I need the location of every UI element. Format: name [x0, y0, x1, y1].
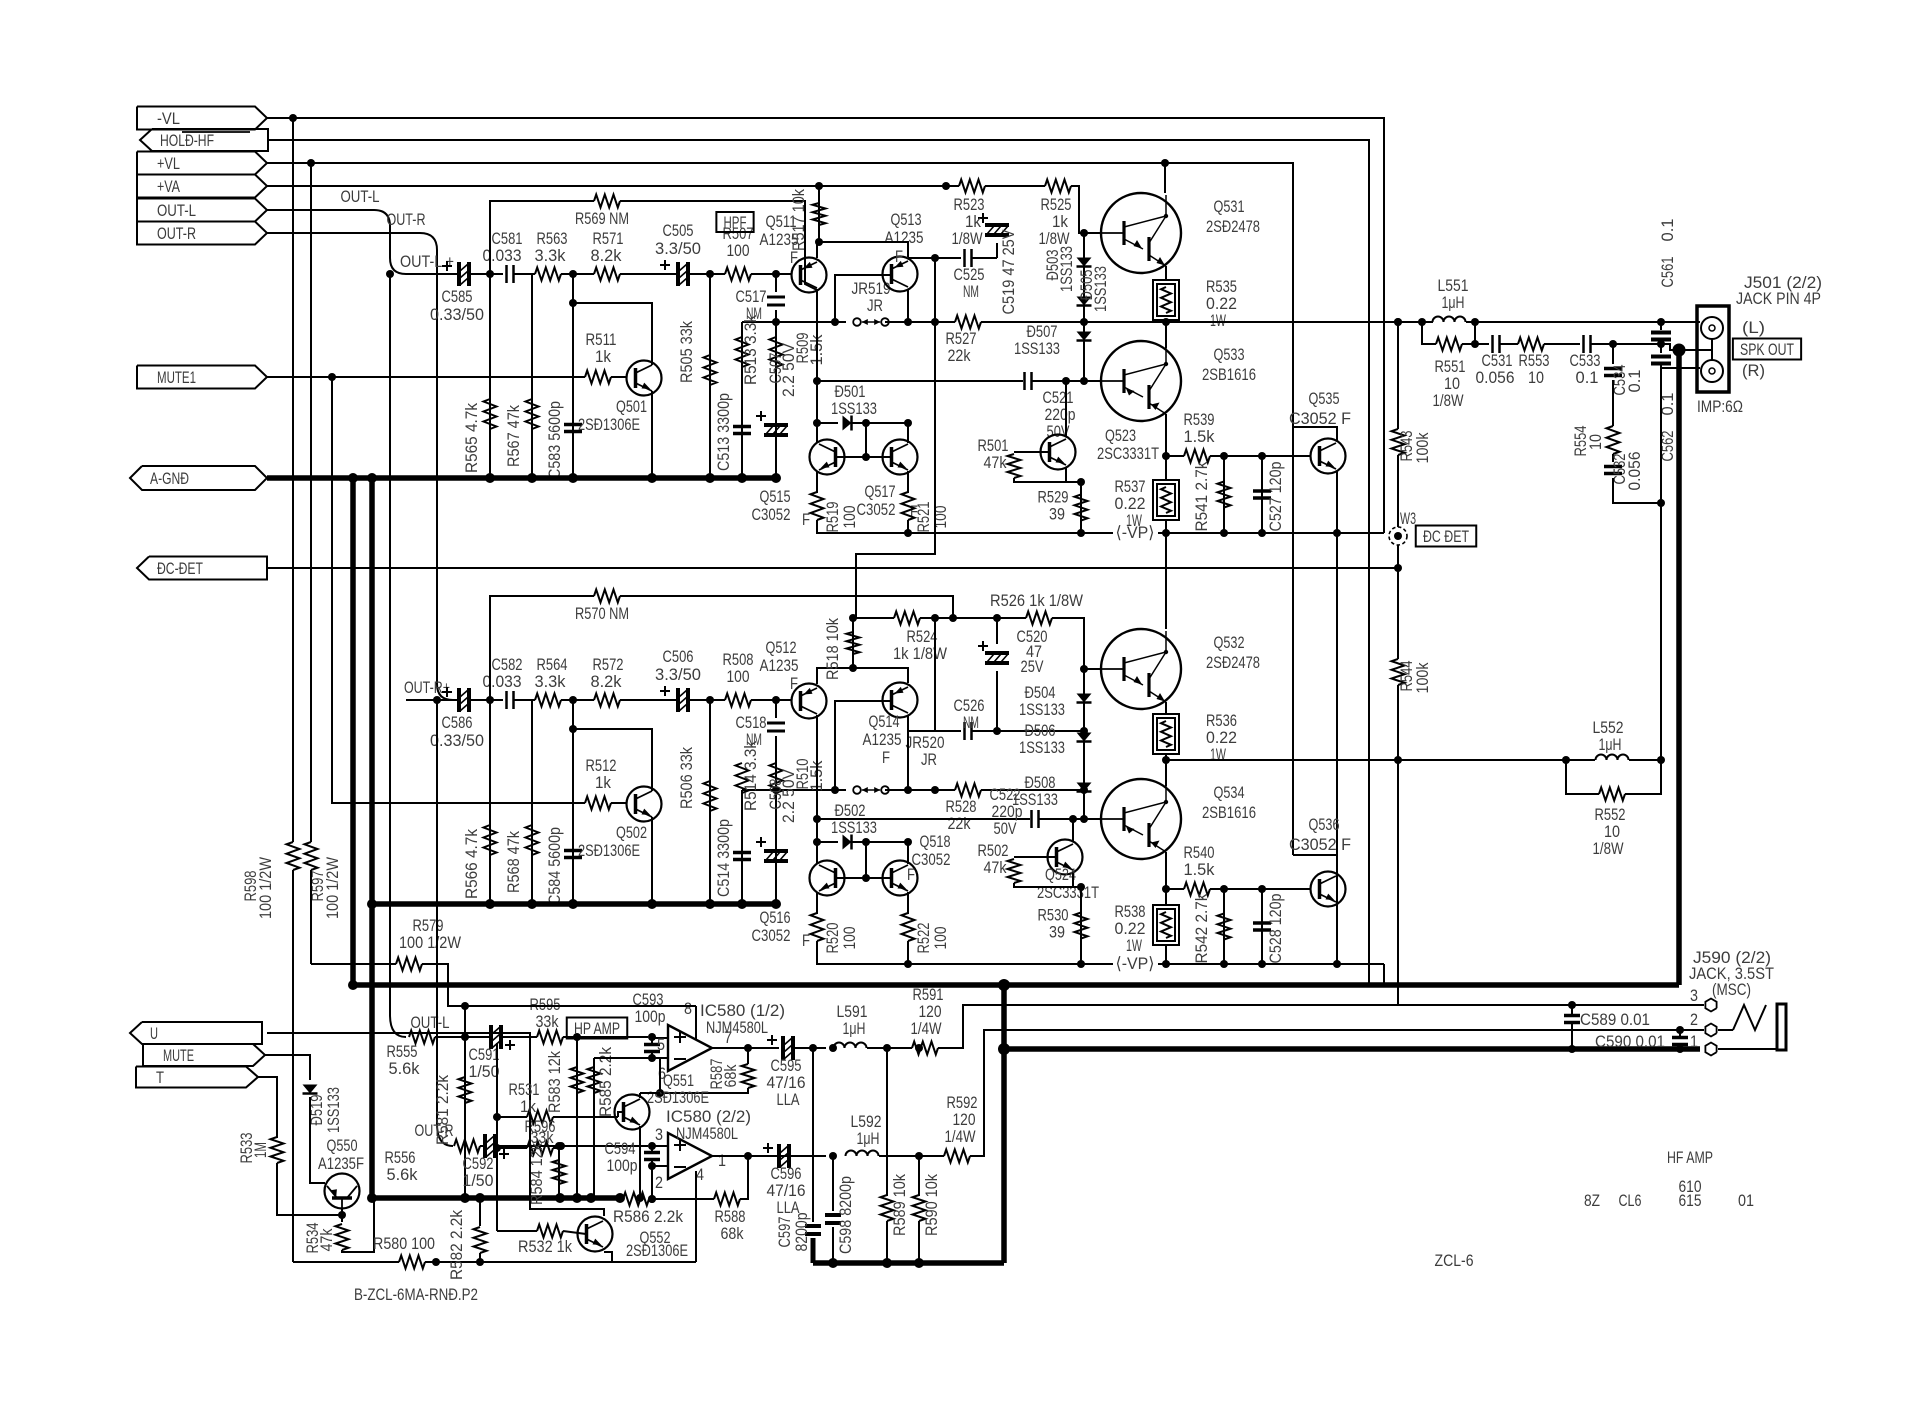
svg-text:8.2k: 8.2k: [591, 672, 622, 691]
svg-text:2SĐ2478: 2SĐ2478: [1206, 217, 1260, 236]
connector W3: [1389, 527, 1407, 545]
wire C534-R554: [1612, 380, 1614, 426]
wire R579 left: [311, 963, 396, 965]
svg-text:8: 8: [684, 999, 692, 1018]
capacitor C591 electrolytic: [491, 1025, 515, 1050]
wire W3 down: [1397, 545, 1399, 659]
junction dot OUT-L branch: [386, 270, 394, 278]
resistor R586: [623, 1193, 649, 1206]
label R582: [447, 1210, 466, 1280]
resistor R589: [881, 1195, 894, 1221]
wire R541 vertical: [1223, 456, 1225, 533]
wire R522 to -VP: [907, 941, 909, 964]
wire T line: [258, 1077, 277, 1138]
label R518: [823, 618, 842, 680]
svg-text:50V: 50V: [994, 819, 1018, 838]
svg-text:R583 12k: R583 12k: [545, 1051, 564, 1113]
label Q513: [885, 210, 924, 266]
resistor R572: [594, 694, 620, 707]
wire R590 vertical: [918, 1156, 920, 1196]
svg-text:OUT-L +: OUT-L +: [400, 252, 454, 271]
svg-text:JR: JR: [921, 750, 937, 769]
capacitor C586 electrolytic: [442, 687, 469, 712]
svg-text:100: 100: [931, 506, 950, 529]
label R532: [518, 1237, 572, 1256]
label R536: [1206, 711, 1237, 764]
wire R533 down: [277, 1163, 342, 1215]
junction dot R589 top: [883, 1044, 891, 1052]
wire Q524 emitter: [1073, 873, 1081, 887]
svg-text:5: 5: [657, 1035, 665, 1054]
box label SPK OUT: [1733, 339, 1801, 360]
junction dot vbe bottom: [1077, 883, 1085, 891]
wire A-GND vertical a: [350, 478, 356, 985]
resistor R511: [585, 371, 611, 384]
svg-text:2SĐ1306E: 2SĐ1306E: [578, 841, 640, 860]
label R541: [1192, 461, 1211, 531]
wire feedback R569: [490, 201, 594, 274]
diode Đ507: [1077, 332, 1092, 341]
wire R571-C505: [620, 273, 676, 275]
connector J590 sleeve: [1777, 1004, 1786, 1050]
svg-text:R565 4.7k: R565 4.7k: [462, 403, 481, 473]
wire R507-Q511: [751, 273, 792, 275]
label Q501: [578, 397, 647, 434]
junction dot minus in: [648, 1054, 656, 1062]
wire R526 to diode chain: [1052, 618, 1084, 669]
junction dots L551 nodes: [1471, 318, 1479, 348]
diode Đ504: [1077, 694, 1092, 703]
junction dots R524 line: [849, 614, 1001, 622]
wire R524 line mid: [920, 617, 1026, 619]
transistor Q533 darlington: [1101, 341, 1181, 421]
label R526: [990, 591, 1083, 610]
wire Q536 emitter: [1336, 904, 1338, 964]
junction dots A-GND mid: [485, 899, 781, 909]
svg-text:1k: 1k: [595, 347, 611, 366]
svg-text:HOLĐ-HF: HOLĐ-HF: [160, 131, 214, 150]
transistor Q518: [883, 861, 918, 896]
net flag DC-DET: [137, 557, 267, 580]
wire chain stub: [1612, 344, 1614, 364]
svg-text:100k: 100k: [1413, 432, 1432, 463]
diode Đ505: [1077, 297, 1092, 306]
label C531: [1476, 351, 1515, 387]
label Q514: [863, 712, 902, 767]
svg-text:Q524: Q524: [1045, 865, 1076, 884]
label R565: [462, 403, 481, 473]
wire J590 tip link: [1718, 1029, 1733, 1031]
label C583: [545, 401, 564, 479]
transistor Q523: [1041, 435, 1076, 470]
wire C592 out: [497, 1145, 537, 1147]
wire C532 down: [1613, 478, 1661, 503]
svg-text:68k: 68k: [721, 1224, 744, 1243]
wire jumper-R527: [885, 321, 955, 323]
svg-text:C514 3300p: C514 3300p: [714, 819, 733, 897]
svg-text:100: 100: [840, 927, 859, 950]
label C595: [767, 1056, 806, 1109]
label Q515: [752, 487, 811, 529]
wire Q501 emitter: [651, 391, 653, 478]
svg-text:R541 2.7k: R541 2.7k: [1192, 461, 1211, 531]
svg-text:Q517: Q517: [865, 482, 896, 501]
svg-text:U: U: [150, 1024, 158, 1043]
transistor Q531 darlington: [1101, 193, 1181, 273]
resistor R527: [955, 316, 981, 329]
label R586: [613, 1207, 683, 1226]
wire Q514 base drop: [835, 701, 891, 790]
svg-text:0.1: 0.1: [1658, 219, 1677, 242]
transistor Q501: [627, 361, 662, 396]
wire R584 vertical: [558, 1146, 560, 1198]
resistor R595: [537, 1031, 563, 1044]
svg-text:2SĐ1306E: 2SĐ1306E: [578, 415, 640, 434]
label R596: [525, 1117, 556, 1147]
svg-text:ĐC ĐET: ĐC ĐET: [1423, 527, 1469, 546]
svg-text:A1235: A1235: [863, 730, 902, 749]
wire Q550 em down: [341, 1215, 343, 1222]
label IMP 6ohm: [1697, 397, 1743, 416]
svg-text:47k: 47k: [317, 1228, 336, 1251]
svg-text:1W: 1W: [1126, 511, 1142, 530]
op-amp IC580 (2/2): [668, 1133, 712, 1179]
wire diode to bases: [865, 423, 867, 457]
wire R582 vertical: [479, 1198, 481, 1226]
wire jack internal: [1711, 339, 1713, 360]
svg-text:1/4W: 1/4W: [945, 1127, 976, 1146]
svg-text:OUT-R: OUT-R: [157, 224, 196, 243]
svg-text:R566 4.7k: R566 4.7k: [462, 829, 481, 899]
wire feedback R570: [490, 596, 594, 700]
resistor R524: [894, 612, 920, 625]
label C597: [775, 1213, 811, 1252]
svg-text:R570 NM: R570 NM: [575, 604, 629, 623]
svg-text:1μH: 1μH: [843, 1019, 866, 1038]
resistor R590: [913, 1195, 926, 1221]
wire R542 vertical: [1223, 889, 1225, 964]
resistor R542: [1218, 914, 1231, 940]
junction dots drive line: [1080, 815, 1088, 823]
label R588: [715, 1207, 746, 1243]
svg-text:1SS133: 1SS133: [324, 1087, 343, 1133]
capacitor C513: [733, 427, 751, 434]
svg-text:8.2k: 8.2k: [591, 246, 622, 265]
label C513: [714, 393, 733, 471]
wire R511-Q501: [611, 376, 627, 378]
wire -VP right: [1158, 963, 1384, 965]
wire R531 line: [497, 1116, 527, 1118]
wire Q552 emitter: [604, 1252, 612, 1262]
wire C593 link bot: [652, 1052, 668, 1058]
svg-text:R582 2.2k: R582 2.2k: [447, 1210, 466, 1280]
junction dot C561 top: [1657, 318, 1665, 326]
wire L552 out: [1629, 759, 1661, 761]
wire R568 vertical: [531, 700, 533, 904]
resistor R566: [484, 825, 497, 855]
wire R555 out: [435, 1036, 465, 1038]
svg-text:1μH: 1μH: [1442, 293, 1465, 312]
capacitor C527: [1253, 491, 1271, 498]
wire plus in: [652, 1037, 668, 1039]
label pin2: [655, 1173, 663, 1192]
svg-text:Q534: Q534: [1214, 783, 1245, 802]
capacitor C594: [644, 1153, 660, 1160]
transistor Q551: [615, 1095, 650, 1130]
wire diode chain: [1083, 233, 1085, 322]
label C508: [766, 768, 798, 823]
svg-text:Q523: Q523: [1105, 426, 1136, 445]
junction dots C589: [1568, 1001, 1576, 1053]
capacitor C584: [564, 851, 582, 858]
label R533: [237, 1133, 270, 1164]
wire Q533 collector down: [1165, 414, 1167, 480]
resistor R532: [537, 1225, 563, 1238]
wire C591 out: [503, 1036, 537, 1038]
label R522: [914, 923, 950, 954]
capacitor C598: [825, 1215, 841, 1223]
label R509: [793, 333, 826, 366]
label R571: [591, 229, 624, 265]
junction dot Q501 collector: [569, 299, 577, 307]
resistor R563: [535, 268, 561, 281]
wire C525 right: [972, 257, 997, 259]
label Đ502: [831, 801, 877, 837]
svg-text:C528 120p: C528 120p: [1266, 894, 1285, 964]
fusible resistor R537: [1153, 480, 1179, 520]
wire base join: [836, 877, 891, 879]
wire R589 down: [886, 1221, 888, 1263]
wire R502 bottom: [1014, 883, 1081, 887]
resistor R587: [742, 1064, 755, 1088]
net flag +VL: [137, 152, 267, 175]
svg-text:1SS133: 1SS133: [831, 818, 877, 837]
wire Q532 emitter: [1165, 702, 1167, 714]
wire R589 vertical: [886, 1048, 888, 1196]
label C586: [430, 713, 484, 750]
junction dot Q502 collector: [569, 725, 577, 733]
wire +VL rail: [267, 163, 1293, 855]
wire C522 to base: [1039, 818, 1101, 820]
svg-text:-VL: -VL: [157, 109, 180, 128]
diode Đ502: [843, 835, 852, 850]
diode Đ501: [843, 416, 852, 431]
wire diode chain: [1083, 669, 1085, 790]
transistor Q535: [1311, 439, 1346, 474]
resistor R519: [811, 492, 824, 520]
svg-text:1SS133: 1SS133: [1091, 266, 1110, 312]
wire +VA rail: [267, 185, 959, 187]
transistor Q536: [1311, 872, 1346, 907]
junction dots fb line: [648, 1195, 656, 1203]
capacitor C519 electrolytic: [978, 213, 1009, 235]
resistor R541: [1218, 482, 1231, 508]
capacitor C532: [1604, 467, 1622, 474]
resistor R528: [955, 784, 981, 797]
label C590: [1595, 1032, 1665, 1051]
svg-text:C584 5600p: C584 5600p: [545, 827, 564, 905]
wire C597 vertical: [812, 1048, 814, 1222]
label R510: [793, 759, 826, 792]
capacitor C528: [1253, 923, 1271, 930]
resistor R521: [902, 492, 915, 520]
capacitor C597: [805, 1226, 821, 1234]
wire spk R chain: [1475, 343, 1489, 345]
wire R566 vertical: [489, 700, 491, 904]
wire DC-DET line: [268, 567, 1398, 569]
svg-text:C527 120p: C527 120p: [1266, 462, 1285, 532]
svg-text:1/4W: 1/4W: [911, 1019, 942, 1038]
resistor R539: [1184, 450, 1210, 463]
svg-text:0.033: 0.033: [483, 246, 522, 265]
wire Q531 collector feed: [1164, 163, 1166, 193]
wire Q517 emitter: [907, 471, 909, 493]
transistor Q534 darlington: [1101, 779, 1181, 859]
svg-text:1: 1: [718, 1151, 726, 1170]
svg-text:(MSC): (MSC): [1712, 980, 1751, 999]
svg-text:2SC3331T: 2SC3331T: [1037, 883, 1099, 902]
diode Đ508: [1077, 783, 1092, 792]
wire R595 out: [563, 1036, 648, 1038]
wire MUTE2 line: [332, 377, 585, 803]
svg-text:1M: 1M: [251, 1142, 270, 1158]
label OUT-L hp: [411, 1013, 450, 1032]
wire L551 out: [1466, 321, 1475, 323]
junction dot out2: [744, 1152, 752, 1160]
svg-text:1.5k: 1.5k: [1184, 427, 1215, 446]
svg-text:JACK PIN 4P: JACK PIN 4P: [1736, 289, 1821, 308]
resistor R506: [704, 781, 717, 811]
label pin3: [655, 1125, 663, 1144]
wire R502 top: [1014, 856, 1056, 858]
label R512: [586, 756, 617, 792]
label jack L: [1742, 318, 1765, 337]
junction dots bus joins: [348, 899, 377, 1203]
label Q502: [578, 823, 647, 860]
label HF AMP title: [1667, 1148, 1713, 1167]
wire Q534 emitter up: [1165, 760, 1167, 786]
resistor R543: [1392, 429, 1405, 455]
svg-text:CL6: CL6: [1619, 1191, 1642, 1210]
wire C518 down: [775, 736, 777, 790]
resistor R507: [725, 268, 751, 281]
resistor R583: [571, 1067, 584, 1093]
svg-text:1/8W: 1/8W: [1039, 229, 1070, 248]
svg-text:C3052: C3052: [752, 926, 791, 945]
wire R586 right: [649, 1198, 714, 1200]
label Q517: [857, 482, 919, 521]
wire OUT-L hp bend: [390, 1015, 406, 1037]
op-amp IC580 (1/2): [668, 1025, 712, 1071]
capacitor C525: [965, 249, 972, 267]
capacitor C534: [1604, 369, 1622, 376]
resistor R510: [770, 763, 783, 793]
resistor R556: [454, 1140, 480, 1153]
transistor Q514: [883, 683, 918, 718]
wire R596 link: [496, 1117, 498, 1148]
connector J501 pin L: [1701, 317, 1723, 339]
label R584: [527, 1143, 546, 1205]
wire Q551 base link: [618, 1112, 623, 1117]
wire C520 stub: [996, 671, 998, 731]
svg-text:1SS133: 1SS133: [1019, 738, 1065, 757]
junction dot fb node: [656, 1089, 664, 1097]
resistor R568: [526, 825, 539, 855]
label R537: [1115, 477, 1146, 530]
svg-text:ZCL-6: ZCL-6: [1435, 1251, 1474, 1270]
svg-text:Q536: Q536: [1309, 815, 1340, 834]
capacitor C585 electrolytic: [442, 261, 469, 286]
junction dot output node: [1162, 318, 1170, 326]
wire Q502 collector: [573, 729, 652, 791]
svg-text:C590 0.01: C590 0.01: [1595, 1032, 1665, 1051]
junction dot L591 out: [915, 1044, 923, 1052]
label R514: [741, 741, 760, 811]
label Đ506: [1019, 721, 1065, 757]
wire C518 stub: [775, 700, 777, 718]
label J501: [1736, 273, 1822, 308]
net flag OUT-R: [137, 222, 267, 245]
wire Q523 emitter: [1066, 468, 1081, 482]
wire R514 vertical: [741, 790, 743, 904]
wire C589 vertical: [1571, 1005, 1573, 1014]
wire R535 to out: [1165, 320, 1167, 322]
label C528: [1266, 894, 1285, 964]
resistor R518: [847, 632, 860, 654]
label C527: [1266, 462, 1285, 532]
wire R564-R572: [561, 699, 594, 701]
wire R552 out: [1625, 760, 1661, 794]
svg-text:Q550: Q550: [327, 1136, 358, 1155]
resistor R588: [714, 1193, 740, 1206]
inductor L552: [1596, 755, 1629, 761]
label R517: [789, 189, 808, 251]
transistor Q532 darlington: [1101, 629, 1181, 709]
svg-text:C513 3300p: C513 3300p: [714, 393, 733, 471]
wire R563-R571: [561, 273, 594, 275]
label code 610: [1679, 1177, 1702, 1196]
label C526: [954, 696, 985, 732]
wire jumper line left: [742, 321, 846, 323]
wire R510 vertical: [775, 790, 777, 904]
transistor Q517: [883, 440, 918, 475]
wire R567 vertical: [531, 274, 533, 478]
wire U line: [267, 1033, 530, 1120]
junction dots Đ502: [862, 838, 912, 846]
wire Q518 collector: [907, 842, 909, 864]
svg-text:W3: W3: [1400, 509, 1416, 528]
svg-text:NM: NM: [963, 713, 979, 732]
resistor R555: [409, 1031, 435, 1044]
wire R534 out: [342, 1198, 374, 1252]
wire C593 link top: [651, 1037, 653, 1044]
label Q531: [1206, 197, 1260, 236]
wire Q502 emitter: [651, 817, 653, 904]
wire Q516 collector: [816, 842, 818, 864]
wire R501 top: [1014, 451, 1049, 453]
svg-text:A1235: A1235: [760, 656, 799, 675]
junction dot R598 top: [289, 114, 297, 122]
svg-text:2.2 50V: 2.2 50V: [779, 342, 798, 397]
svg-text:100: 100: [840, 506, 859, 529]
resistor R530: [1075, 913, 1088, 939]
junction dot vbe bottom: [1077, 478, 1085, 486]
svg-text:3.3k: 3.3k: [535, 672, 566, 691]
wire R596 down: [560, 1146, 562, 1148]
wire C586 out: [471, 699, 503, 701]
svg-text:Q513: Q513: [891, 210, 922, 229]
svg-text:10: 10: [1528, 368, 1544, 387]
